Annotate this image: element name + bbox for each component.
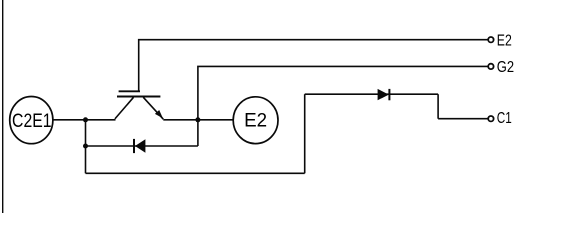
wire collector branch vertical <box>85 120 87 174</box>
terminal E2 <box>488 37 493 42</box>
svg-text:E2: E2 <box>244 109 267 131</box>
wire emitter node to G2 run <box>198 66 488 146</box>
transistor Q2 IGBT <box>115 91 163 119</box>
terminal circle C2E1 <box>10 97 53 144</box>
wire emitter to E2 circle <box>163 119 233 121</box>
terminal G2 <box>488 64 493 69</box>
svg-text:C2E1: C2E1 <box>12 110 52 132</box>
diode D1 series (anode left) <box>378 89 390 100</box>
wire to C1 terminal <box>438 118 488 120</box>
terminal circle E2 aux <box>233 97 278 144</box>
svg-text:C1: C1 <box>497 110 512 127</box>
svg-text:E2: E2 <box>497 33 512 50</box>
wire drop to C1 level <box>437 94 439 119</box>
wire series diode run <box>305 93 438 95</box>
diode D2 freewheel (cathode left) <box>134 139 145 153</box>
node junction freewheel branch <box>83 144 88 149</box>
node junction emitter <box>195 117 200 122</box>
terminal C1 <box>488 116 493 121</box>
wire bottom <box>86 172 305 174</box>
node junction collector branch <box>83 117 88 122</box>
wire right riser <box>304 94 306 173</box>
left frame line <box>2 0 4 213</box>
wire C2E1 to IGBT collector <box>53 119 116 121</box>
wire gate to top run <box>139 40 488 92</box>
svg-text:G2: G2 <box>497 59 514 76</box>
wire freewheel diode branch <box>86 145 198 147</box>
